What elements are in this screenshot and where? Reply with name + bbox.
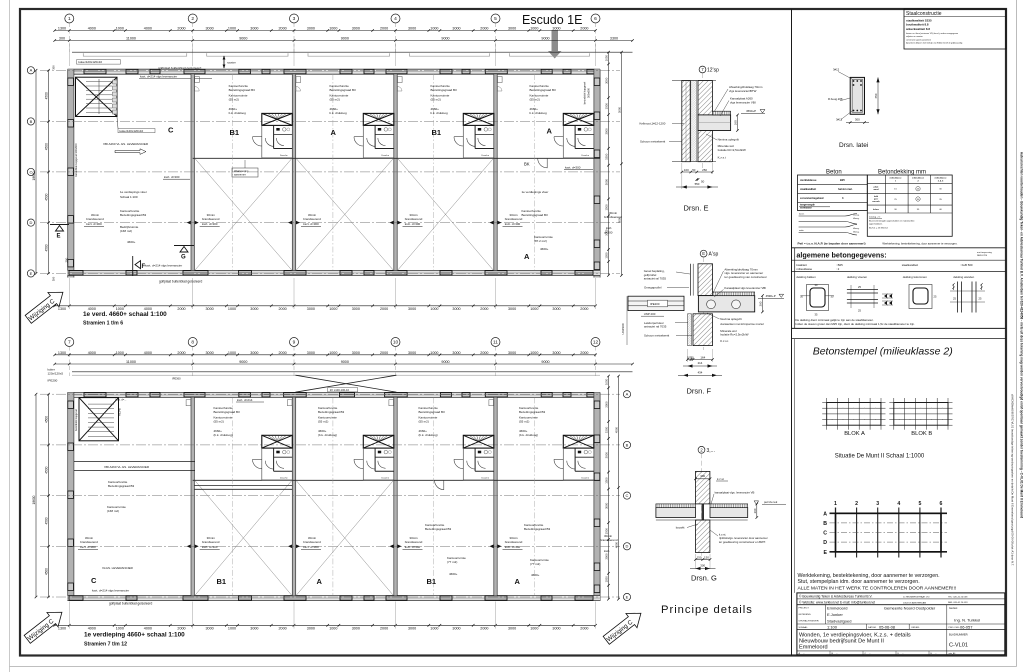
beton table left — [798, 175, 868, 211]
svg-text:© Website: www.turkkol.net E-: © Website: www.turkkol.net E-mail: info@… — [799, 600, 875, 604]
svg-text:A: A — [626, 392, 629, 397]
svg-text:1500: 1500 — [605, 528, 609, 535]
svg-text:3000: 3000 — [605, 179, 609, 186]
svg-text:3000: 3000 — [250, 27, 258, 31]
staalconstructie box — [904, 9, 1006, 49]
svg-text:© Bouwkundig Teken & Adviesbur: © Bouwkundig Teken & Adviesbureau Turkko… — [799, 595, 873, 599]
svg-text:BLOK A: BLOK A — [844, 431, 865, 437]
svg-text:3000: 3000 — [307, 351, 315, 355]
svg-text:IPE200: IPE200 — [650, 302, 660, 306]
svg-text:E: E — [702, 251, 705, 256]
svg-text:9: 9 — [293, 340, 296, 346]
svg-text:bouwlit: bouwlit — [676, 526, 685, 530]
top dim row 1 — [55, 30, 596, 32]
detail E outer leaf brick — [682, 81, 690, 162]
svg-text:9000: 9000 — [239, 360, 247, 364]
svg-text:300: 300 — [700, 564, 705, 568]
svg-text:Bezettingsgraad B3: Bezettingsgraad B3 — [419, 410, 446, 414]
module hall crosses bottom plan — [195, 480, 292, 595]
svg-text:3000: 3000 — [605, 229, 609, 236]
svg-text:2000: 2000 — [580, 627, 588, 631]
svg-text:HE245: HE245 — [118, 407, 122, 415]
svg-text:antraciet ral 7035: antraciet ral 7035 — [644, 277, 667, 281]
svg-text:3, 4, 5: 3, 4, 5 — [938, 180, 944, 183]
top plan bottom wall — [68, 270, 600, 275]
svg-text:kszt. d=300: kszt. d=300 — [80, 545, 96, 549]
svg-text:3000: 3000 — [605, 128, 609, 135]
svg-text:h/beug.: h/beug. — [853, 228, 860, 230]
svg-text:4500: 4500 — [615, 541, 619, 548]
svg-text:3000: 3000 — [408, 307, 416, 311]
svg-text:300: 300 — [700, 474, 705, 478]
svg-text:2000: 2000 — [278, 627, 286, 631]
detail E screed — [712, 111, 730, 115]
svg-text:onder: onder — [799, 229, 804, 232]
svg-text:3,...: 3,... — [707, 448, 715, 454]
svg-text:Stramien 1 t/m 6: Stramien 1 t/m 6 — [83, 321, 123, 327]
svg-text:kszt. d=300: kszt. d=300 — [303, 545, 319, 549]
svg-text:(55 m2): (55 m2) — [419, 420, 429, 424]
svg-text:Drsn. G: Drsn. G — [691, 574, 717, 583]
svg-text:D: D — [823, 540, 827, 546]
svg-text:3000: 3000 — [618, 106, 622, 113]
svg-text:4000: 4000 — [144, 27, 152, 31]
bottom wall blocks — [69, 271, 83, 275]
svg-text:E: E — [30, 271, 33, 276]
svg-text:12: 12 — [593, 340, 599, 346]
svg-text:4: 4 — [394, 16, 397, 22]
svg-text:1e verd. 4660+ schaal 1:100: 1e verd. 4660+ schaal 1:100 — [83, 311, 167, 318]
svg-text:1050: 1050 — [605, 576, 609, 583]
svg-text:(55 m2): (55 m2) — [214, 420, 224, 424]
bottom plan dim row 2 — [55, 363, 633, 365]
svg-text:dekking kolommen: dekking kolommen — [903, 275, 927, 279]
detail E ref bubble — [699, 66, 706, 73]
svg-text:3000: 3000 — [352, 27, 360, 31]
detail G slab right — [710, 508, 748, 518]
svg-text:4660+: 4660+ — [540, 247, 549, 251]
svg-text:Omegaprofiel: Omegaprofiel — [644, 286, 662, 290]
detail G joint — [702, 504, 704, 520]
svg-text:ter goedkeuring constructeur: ter goedkeuring constructeur en BWT. — [719, 540, 766, 544]
svg-text:brandwerend: brandwerend — [202, 540, 220, 544]
top plan interior walls — [191, 74, 194, 270]
svg-text:4000: 4000 — [144, 627, 152, 631]
svg-text:1000: 1000 — [329, 27, 337, 31]
svg-text:Escudo 1E: Escudo 1E — [522, 13, 582, 27]
module hall crosses top plan — [195, 158, 292, 270]
svg-text:4500: 4500 — [45, 143, 49, 150]
svg-text:3000: 3000 — [605, 452, 609, 459]
svg-text:wtw_A1: wtw_A1 — [949, 652, 957, 655]
svg-text:kwaliteit: kwaliteit — [796, 263, 806, 267]
row dash-dot lines bottom plan — [40, 393, 620, 395]
svg-text:Bezettingsgraad B3: Bezettingsgraad B3 — [524, 527, 551, 531]
svg-text:1050: 1050 — [605, 252, 609, 259]
svg-text:4: 4 — [897, 501, 900, 507]
svg-text:hal·bm mal.: hal·bm mal. — [838, 187, 853, 191]
svg-text:A: A — [547, 127, 553, 136]
svg-text:300: 300 — [52, 65, 56, 70]
double line module 8-9 — [194, 485, 292, 487]
module center dashed lines bottom — [232, 397, 234, 595]
svg-text:1000: 1000 — [116, 351, 124, 355]
svg-text:11: 11 — [493, 340, 498, 346]
svg-text:3000: 3000 — [205, 307, 213, 311]
svg-text:Werktekening, bestektekening,: Werktekening, bestektekening, door aanne… — [882, 242, 957, 246]
svg-text:Isolatie Rc=2,5m2k/W: Isolatie Rc=2,5m2k/W — [720, 333, 748, 337]
svg-text:4000: 4000 — [88, 27, 96, 31]
svg-text:staalkwaliteit: staalkwaliteit — [800, 187, 816, 191]
wijziging arrow 3 — [601, 606, 647, 647]
svg-text:550: 550 — [695, 182, 700, 186]
svg-text:dekking wanden: dekking wanden — [953, 275, 974, 279]
svg-text:1300: 1300 — [58, 351, 66, 355]
svg-text:3000: 3000 — [618, 216, 622, 223]
detail F floor slab — [698, 296, 754, 312]
svg-text:Kelknoot,1#12-1200: Kelknoot,1#12-1200 — [640, 121, 666, 125]
svg-text:260: 260 — [734, 120, 738, 125]
svg-text:(55 m2): (55 m2) — [229, 98, 239, 102]
svg-text:Kanaalplaat vlgs leverancier: Kanaalplaat vlgs leverancier VBI — [724, 286, 766, 290]
svg-text:2000: 2000 — [480, 27, 488, 31]
detail E inner leaf upper — [698, 81, 712, 115]
svg-text:1000: 1000 — [116, 27, 124, 31]
svg-text:(77 m2): (77 m2) — [447, 560, 457, 564]
top plan canopy lines — [72, 51, 633, 53]
svg-text:7: 7 — [68, 340, 71, 346]
svg-text:A: A — [515, 577, 521, 586]
detail G column lower — [696, 520, 710, 553]
svg-text:(b.k. drukloog): (b.k. drukloog) — [318, 433, 337, 437]
algemene betongegevens box — [792, 247, 1006, 249]
svg-text:Douche: Douche — [582, 477, 590, 479]
svg-text:kszt. d=300: kszt. d=300 — [405, 222, 421, 226]
bottom plan bottom wall — [68, 596, 600, 601]
svg-text:Gezien:: Gezien: — [949, 606, 958, 610]
svg-text:C-VL01: C-VL01 — [949, 643, 968, 649]
bottom plan grid bubbles 7-12 — [65, 338, 74, 347]
svg-text:kszt. d=214 vlgs leverancier: kszt. d=214 vlgs leverancier — [140, 75, 177, 79]
detail F steel beam IPE — [628, 296, 684, 310]
svg-text:k.z.st: k.z.st — [717, 477, 724, 481]
detail E top bound line — [672, 80, 716, 82]
svg-text:staalkwaliteit: staalkwaliteit — [902, 263, 919, 267]
svg-text:Staalconstructie: Staalconstructie — [906, 11, 942, 17]
svg-text:E: E — [626, 594, 629, 599]
svg-text:3000: 3000 — [508, 27, 516, 31]
detail E bottom bound line — [672, 161, 716, 163]
svg-text:Nevima oplegvilt: Nevima oplegvilt — [718, 137, 739, 141]
svg-text:2000: 2000 — [380, 627, 388, 631]
top wall window blocks — [84, 69, 106, 73]
svg-text:brandwerend: brandwerend — [303, 217, 321, 221]
svg-text:2000: 2000 — [278, 351, 286, 355]
module center dashed lines — [232, 74, 234, 270]
svg-text:Stut, stempelplan idm. door aa: Stut, stempelplan idm. door aannemer te … — [798, 579, 920, 585]
svg-text:A: A — [524, 252, 530, 261]
svg-text:3000: 3000 — [250, 307, 258, 311]
dekking wanden diagram — [957, 282, 959, 313]
svg-text:260: 260 — [753, 508, 757, 513]
svg-text:Schoon metselwerk: Schoon metselwerk — [640, 140, 666, 144]
svg-text:A: A — [30, 68, 33, 73]
svg-text:kanaalplaat vlgs. leverancie: kanaalplaat vlgs. leverancier VB — [715, 490, 755, 494]
svg-text:Bezettingsgraad B3: Bezettingsgraad B3 — [214, 410, 241, 414]
svg-text:Douche: Douche — [382, 155, 390, 157]
svg-text:1e verdieping 4660+ schaal: 1e verdieping 4660+ schaal 1:100 — [84, 632, 185, 639]
svg-text:Stramien 7 t/m 12: Stramien 7 t/m 12 — [84, 642, 127, 648]
svg-text:300: 300 — [52, 276, 56, 281]
svg-text:kolom: kolom — [873, 209, 879, 211]
section marker F — [135, 261, 141, 269]
svg-text:brandwerend: brandwerend — [600, 538, 618, 542]
svg-text:2000: 2000 — [177, 627, 185, 631]
svg-text:1000: 1000 — [530, 351, 538, 355]
bottom top wall blocks — [84, 393, 106, 397]
svg-text:250: 250 — [702, 168, 707, 172]
svg-text:4000: 4000 — [144, 351, 152, 355]
svg-text:Ing. N. Turkkol: Ing. N. Turkkol — [954, 617, 980, 622]
svg-text:18600: 18600 — [32, 171, 36, 180]
svg-text:1500: 1500 — [605, 153, 609, 160]
svg-text:ALLE MATEN IN HET WERK TE CONT: ALLE MATEN IN HET WERK TE CONTROLEREN DO… — [798, 586, 957, 592]
svg-text:oppervlakken.: oppervlakken. — [869, 223, 883, 226]
detail E floor slab — [698, 115, 731, 131]
left dim chains bottom plan — [48, 394, 50, 597]
svg-text:Douche: Douche — [280, 155, 288, 157]
svg-text:4500: 4500 — [45, 466, 49, 473]
svg-text:B1: B1 — [427, 577, 437, 586]
svg-text:VBI A260 VL.GS. LEVERANCIER: VBI A260 VL.GS. LEVERANCIER — [103, 142, 149, 146]
svg-text:3000: 3000 — [552, 351, 560, 355]
svg-text:brandwerend: brandwerend — [405, 540, 423, 544]
svg-text:9000: 9000 — [441, 37, 449, 41]
right dim chains top plan — [608, 52, 610, 275]
svg-text:sterkteklasse: sterkteklasse — [800, 178, 817, 182]
svg-text:Bezettingsgraad B3: Bezettingsgraad B3 — [431, 88, 458, 92]
svg-text:3000: 3000 — [205, 27, 213, 31]
svg-text:E.Jonker: E.Jonker — [827, 612, 843, 617]
stair wc units top plan — [262, 113, 293, 125]
svg-text:K.z.s.t: K.z.s.t — [718, 155, 726, 159]
svg-text:3000: 3000 — [205, 351, 213, 355]
left wall window blocks — [68, 78, 74, 86]
svg-text:algemene betongegevens:: algemene betongegevens: — [796, 251, 886, 260]
svg-text:3000: 3000 — [605, 77, 609, 84]
svg-text:1e HELMERSSTRAAT 170: 1e HELMERSSTRAAT 170 — [903, 595, 930, 598]
svg-text:2X L100-100-10: 2X L100-100-10 — [330, 388, 350, 392]
svg-text:TEL: 020-41 24 058: TEL: 020-41 24 058 — [948, 596, 968, 598]
svg-text:3000: 3000 — [408, 627, 416, 631]
svg-text:kszt. d=300: kszt. d=300 — [303, 222, 319, 226]
svg-text:brandwerend: brandwerend — [80, 540, 98, 544]
svg-text:6: 6 — [940, 501, 943, 507]
svg-text:kszt. d=300: kszt. d=300 — [505, 545, 521, 549]
svg-text:4000: 4000 — [88, 351, 96, 355]
svg-text:C: C — [91, 576, 97, 585]
svg-text:betonblok kopgevel: betonblok kopgevel — [583, 81, 587, 104]
svg-text:1050: 1050 — [605, 378, 609, 385]
svg-text:11000: 11000 — [126, 360, 136, 364]
svg-text:Bij f'ck = 25 N/mm2: Bij f'ck = 25 N/mm2 — [869, 228, 889, 230]
svg-text:8: 8 — [191, 340, 194, 346]
svg-text:milieuklasse: milieuklasse — [796, 267, 812, 271]
svg-text:1000: 1000 — [530, 27, 538, 31]
left dim chains top plan — [48, 70, 50, 273]
section marker E — [56, 226, 64, 232]
panel divider line — [791, 9, 793, 656]
svg-text:console: console — [872, 201, 880, 203]
row bubbles A-E right bottom plan — [623, 391, 630, 398]
svg-text:D: D — [626, 544, 629, 549]
svg-text:3000: 3000 — [552, 307, 560, 311]
svg-text:brandwerend: brandwerend — [405, 217, 423, 221]
svg-text:Aʼsp: Aʼsp — [709, 252, 719, 258]
svg-text:4500: 4500 — [45, 244, 49, 251]
EV meter boxes top plan — [195, 77, 200, 83]
svg-text:toeslag + 5:: toeslag + 5: — [869, 216, 881, 219]
detail G dim 300 top — [696, 478, 711, 480]
svg-text:9000: 9000 — [441, 360, 449, 364]
svg-text:2000: 2000 — [380, 307, 388, 311]
svg-text:boven: boven — [799, 214, 804, 216]
betondekking table — [867, 175, 952, 236]
svg-text:Bezettingsgraad B3: Bezettingsgraad B3 — [318, 410, 345, 414]
svg-text:2000: 2000 — [480, 307, 488, 311]
svg-text:1300: 1300 — [58, 27, 66, 31]
svg-text:Waalvoering: Waalvoering — [234, 169, 249, 173]
dekking vloeren diagram — [847, 289, 878, 291]
svg-text:UNP200: UNP200 — [621, 323, 625, 334]
svg-text:1050: 1050 — [605, 55, 609, 62]
drsn latei beam section — [850, 77, 864, 114]
svg-text:3000: 3000 — [552, 627, 560, 631]
svg-text:2000: 2000 — [480, 351, 488, 355]
svg-text:vrijlaten en menien: vrijlaten en menien — [906, 35, 923, 38]
svg-text:kszt. d=214 vlgs leverancier: kszt. d=214 vlgs leverancier — [145, 264, 182, 268]
svg-text:brandwerend: brandwerend — [505, 540, 523, 544]
svg-text:2: 2 — [191, 16, 194, 22]
svg-text:Situatie De Munt II Sc: Situatie De Munt II Schaal 1:1000 — [835, 454, 925, 460]
svg-text:3000: 3000 — [352, 351, 360, 355]
left stair block module C — [76, 77, 118, 116]
svg-text:300: 300 — [59, 37, 65, 41]
svg-text:Drsn. E: Drsn. E — [684, 204, 709, 213]
svg-text:3000: 3000 — [307, 627, 315, 631]
svg-text:kszt. d=300: kszt. d=300 — [164, 175, 180, 179]
svg-text:4500: 4500 — [45, 193, 49, 200]
svg-text:kszt.: kszt. — [606, 226, 612, 230]
svg-text:2: 2 — [855, 501, 858, 507]
svg-text:BLADNUMMER:: BLADNUMMER: — [949, 632, 968, 636]
top plan grid bubbles 1-6 — [65, 14, 74, 23]
svg-text:150: 150 — [704, 556, 709, 560]
svg-text:3#12: 3#12 — [833, 68, 840, 72]
svg-text:(77 m2): (77 m2) — [530, 562, 540, 566]
svg-text:ankerkwaliteit 8.8: ankerkwaliteit 8.8 — [906, 27, 930, 31]
bottom plan interior walls — [191, 397, 194, 595]
detail F screed — [713, 292, 755, 296]
svg-text:: B25: : B25 — [836, 263, 843, 267]
svg-text:300: 300 — [855, 118, 860, 122]
svg-text:1054 DX AMSTERDAM: 1054 DX AMSTERDAM — [903, 601, 926, 604]
door arc module 10-11 — [435, 480, 444, 489]
D row wall arrows — [187, 221, 191, 225]
svg-text:b.k. drukloog: b.k. drukloog — [530, 111, 548, 115]
svg-text:2000: 2000 — [177, 27, 185, 31]
detail E inner leaf lower — [698, 131, 712, 162]
svg-text:Peil = t.o.v. N.A.P. (te bepal: Peil = t.o.v. N.A.P. (te bepalen door aa… — [798, 242, 866, 246]
svg-text:bijvankeris blrijzen met behul: bijvankeris blrijzen met behulp van Edil… — [906, 42, 962, 45]
svg-text:BLOK B: BLOK B — [911, 431, 932, 437]
partition line mid bottom plan — [193, 479, 600, 481]
svg-text:150: 150 — [697, 556, 702, 560]
svg-text:4590+P: 4590+P — [746, 109, 756, 113]
svg-text:kszt. d=214: kszt. d=214 — [237, 398, 253, 402]
svg-text:: FeB 500: : FeB 500 — [960, 263, 973, 267]
svg-text:FAX: 020-41 24 059: FAX: 020-41 24 059 — [948, 601, 968, 604]
svg-text:Gemeente Noord Oostpolder: Gemeente Noord Oostpolder — [884, 606, 936, 611]
svg-text:Douche: Douche — [482, 477, 490, 479]
svg-text:Douche: Douche — [482, 155, 490, 157]
svg-text:2000: 2000 — [177, 351, 185, 355]
svg-text:C: C — [168, 126, 174, 135]
svg-text:VLGS. LEVERANCIER: VLGS. LEVERANCIER — [102, 566, 134, 570]
svg-text:milieuklasse: milieuklasse — [935, 178, 948, 180]
svg-text:1000: 1000 — [228, 27, 236, 31]
svg-text:b.k. drukloog: b.k. drukloog — [330, 111, 348, 115]
svg-text:120x/120x5: 120x/120x5 — [48, 372, 64, 376]
svg-text:milieuklasse: milieuklasse — [912, 178, 925, 180]
svg-text:9000: 9000 — [541, 360, 549, 364]
rooster arrow — [223, 56, 225, 68]
svg-text:1000: 1000 — [430, 351, 438, 355]
svg-text:Bezettingsgraad B3: Bezettingsgraad B3 — [425, 527, 452, 531]
svg-text:3000: 3000 — [605, 401, 609, 408]
svg-text:1000: 1000 — [329, 627, 337, 631]
svg-text:Douche: Douche — [280, 477, 288, 479]
svg-text:3000: 3000 — [250, 351, 258, 355]
detail F ref bubble — [700, 250, 707, 257]
svg-text:brandwerend: brandwerend — [505, 217, 523, 221]
svg-text:Bezettingsgraad B3: Bezettingsgraad B3 — [522, 213, 549, 217]
detail E dims bottom — [681, 163, 683, 189]
row dash-dot lines top plan — [40, 69, 620, 71]
row bubbles A-E left — [27, 67, 34, 74]
svg-text:ORDER:: ORDER: — [911, 627, 920, 629]
svg-text:260: 260 — [759, 301, 763, 306]
svg-text:: 2: : 2 — [836, 267, 840, 271]
svg-text:Emmeloord: Emmeloord — [799, 644, 828, 650]
svg-text:koker120x120x10: koker120x120x10 — [120, 129, 144, 133]
svg-text:Nevima oplegvilt: Nevima oplegvilt — [720, 317, 741, 321]
svg-text:06-057: 06-057 — [960, 624, 973, 629]
svg-text:12ʼsp: 12ʼsp — [707, 68, 719, 74]
svg-text:b.k. drukloog: b.k. drukloog — [431, 111, 449, 115]
svg-text:5: 5 — [494, 16, 497, 22]
svg-text:3000: 3000 — [452, 307, 460, 311]
svg-text:d:\ACAD\tek\06057\C-VL01 bouwk: d:\ACAD\tek\06057\C-VL01 bouwkundige tek… — [1011, 394, 1015, 566]
svg-text:plaat: plaat — [874, 186, 879, 189]
svg-text:GETEKEND:: GETEKEND: — [799, 614, 812, 616]
svg-text:NEN 6720: NEN 6720 — [977, 255, 988, 257]
svg-text:lassen av. 4mm (minimum 'l/2t): lassen av. 4mm (minimum 'l/2t) hersl.j, … — [906, 32, 958, 35]
svg-text:Principe details: Principe details — [661, 604, 753, 616]
svg-text:(168 m2): (168 m2) — [120, 229, 132, 233]
svg-text:1300: 1300 — [58, 627, 66, 631]
title block — [797, 593, 1005, 655]
